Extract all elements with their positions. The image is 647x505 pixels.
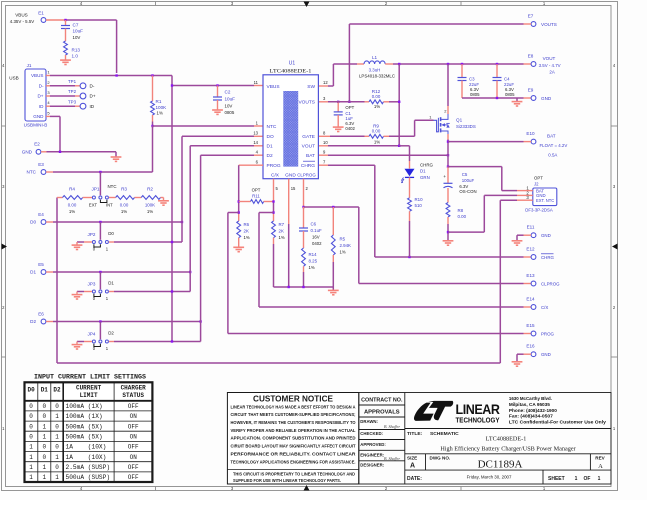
- wire PROG wrap to E15: [228, 212, 239, 214]
- svg-text:Si2333DS: Si2333DS: [456, 124, 476, 129]
- svg-text:1: 1: [29, 474, 33, 481]
- svg-text:Milpitas, CA 95035: Milpitas, CA 95035: [509, 402, 550, 407]
- svg-text:DO: DO: [267, 134, 274, 140]
- terminal E5 D1: [41, 270, 46, 275]
- node C/X-R11: [272, 200, 274, 202]
- svg-text:1%: 1%: [69, 209, 75, 214]
- svg-text:1%: 1%: [309, 265, 315, 270]
- svg-text:16V: 16V: [312, 235, 320, 240]
- svg-text:CLPROG: CLPROG: [297, 173, 316, 178]
- wire JP2 position-1 row: [109, 241, 114, 243]
- wire bottom gnd stem: [332, 287, 334, 290]
- svg-text:1A (10X): 1A (10X): [66, 454, 107, 461]
- svg-text:2K: 2K: [279, 229, 284, 234]
- svg-text:100mA (1X): 100mA (1X): [66, 403, 103, 410]
- svg-text:1630 McCarthy Blvd.: 1630 McCarthy Blvd.: [509, 396, 552, 401]
- svg-text:E16: E16: [526, 344, 535, 349]
- node E10 row: [447, 140, 449, 142]
- svg-text:INPUT CURRENT LIMIT SETTINGS: INPUT CURRENT LIMIT SETTINGS: [34, 374, 146, 381]
- ground at E11: [512, 241, 523, 245]
- wire E9 gnd stem: [516, 98, 518, 101]
- svg-text:1%: 1%: [374, 104, 380, 109]
- svg-text:U1: U1: [289, 61, 296, 67]
- svg-text:500mA (5X): 500mA (5X): [66, 433, 103, 440]
- svg-text:SIZE: SIZE: [407, 455, 417, 460]
- wire CHRG pin row: [319, 164, 328, 166]
- connector J1 USBMINI-B: [25, 69, 46, 121]
- svg-text:BAT: BAT: [547, 134, 556, 139]
- wire D0 row: [46, 221, 53, 223]
- svg-text:E7: E7: [528, 14, 534, 19]
- svg-text:PERFORMANCE OR RELIABILITY. C: PERFORMANCE OR RELIABILITY. CONTACT LINE…: [231, 451, 357, 456]
- svg-text:R3: R3: [121, 187, 127, 192]
- svg-text:2.94K: 2.94K: [340, 243, 352, 248]
- wire NTC down to E3 row: [152, 126, 154, 172]
- svg-text:GND: GND: [285, 173, 296, 179]
- svg-text:1%: 1%: [244, 235, 250, 240]
- svg-text:1: 1: [598, 476, 601, 482]
- resistor R14: [302, 248, 306, 266]
- svg-text:VOUT: VOUT: [543, 56, 556, 61]
- wire Q1 source to VOUT rail: [447, 64, 449, 106]
- svg-text:D2: D2: [108, 331, 114, 336]
- svg-text:GND: GND: [541, 352, 551, 357]
- svg-text:HOWEVER, IT REMAINS THE CUSTOM: HOWEVER, IT REMAINS THE CUSTOMER'S RESPO…: [231, 420, 357, 425]
- node J2 GND link: [447, 231, 449, 233]
- svg-text:DWG NO.: DWG NO.: [430, 455, 451, 460]
- svg-text:OS-CON: OS-CON: [459, 189, 476, 194]
- svg-text:+: +: [443, 175, 446, 180]
- wire JP4 center up: [99, 322, 101, 340]
- svg-text:TP1: TP1: [68, 79, 77, 84]
- node C/X wrap: [272, 211, 274, 213]
- wire D1 row: [46, 271, 53, 273]
- wire VOUTS row: [319, 101, 328, 103]
- resistor R1: [152, 76, 154, 102]
- test point TP1: [50, 85, 75, 87]
- svg-text:1%: 1%: [121, 209, 127, 214]
- svg-text:10: 10: [323, 140, 328, 145]
- node R10 bottom: [408, 256, 410, 258]
- svg-text:ENGINEER:: ENGINEER:: [360, 452, 384, 457]
- svg-text:D+: D+: [90, 94, 96, 99]
- svg-text:R5: R5: [340, 237, 346, 242]
- svg-text:SW: SW: [307, 84, 315, 90]
- svg-text:GND: GND: [541, 233, 551, 238]
- svg-text:0805: 0805: [505, 92, 515, 97]
- resistor R5: [332, 207, 334, 235]
- terminal E3 NTC: [41, 170, 46, 175]
- wire R12 riser / VOUT sense vertical: [398, 64, 400, 146]
- svg-text:0: 0: [29, 413, 33, 420]
- svg-text:LPS4018-332MLC: LPS4018-332MLC: [359, 73, 395, 78]
- wire GATE row: [319, 135, 330, 137]
- svg-text:0.00: 0.00: [458, 214, 467, 219]
- svg-text:0: 0: [29, 433, 33, 440]
- svg-text:L1: L1: [372, 55, 378, 60]
- svg-text:8.25: 8.25: [309, 259, 318, 264]
- ground below C1: [333, 127, 344, 131]
- svg-text:0: 0: [42, 444, 46, 451]
- wire R5 to gnd row: [332, 262, 334, 287]
- node CLPROG: [302, 206, 304, 208]
- svg-text:1%: 1%: [374, 140, 380, 145]
- svg-text:ON: ON: [130, 454, 138, 461]
- capacitor C2: [217, 86, 219, 98]
- title block: [359, 393, 611, 485]
- svg-text:LTC4088EDE-1: LTC4088EDE-1: [270, 69, 312, 75]
- node VBUS-C7: [64, 19, 66, 21]
- terminal E13 CLPROG: [524, 283, 532, 285]
- svg-text:CIRUIT BOARD LAYOUT MAY SIGNIF: CIRUIT BOARD LAYOUT MAY SIGNIFICANTLY AF…: [231, 444, 356, 449]
- jumper JP4: [92, 340, 95, 343]
- node R1 top: [151, 74, 153, 76]
- svg-text:CHRG: CHRG: [541, 255, 555, 260]
- svg-text:D0: D0: [30, 220, 36, 225]
- svg-text:0: 0: [55, 444, 59, 451]
- svg-text:NTC: NTC: [107, 184, 116, 189]
- svg-text:OFF: OFF: [128, 444, 139, 451]
- svg-text:VOUTS: VOUTS: [541, 22, 557, 27]
- node PROG wrap: [238, 211, 240, 213]
- op-amp U1 LTC4088EDE-1: [263, 75, 318, 179]
- resistor R7: [273, 214, 275, 221]
- node R5 top: [332, 206, 334, 208]
- wire VOUT pin row: [319, 145, 328, 147]
- svg-text:CIRCUIT THAT MEETS CUSTOMER-SU: CIRCUIT THAT MEETS CUSTOMER-SUPPLIED SPE…: [231, 412, 357, 417]
- svg-text:D1: D1: [108, 281, 114, 286]
- svg-text:E6: E6: [38, 312, 44, 317]
- terminal E8 VOUT: [531, 62, 536, 67]
- wire Q1 drain down: [447, 134, 449, 140]
- svg-text:D1: D1: [420, 169, 426, 174]
- svg-text:1: 1: [42, 423, 46, 430]
- svg-text:1: 1: [42, 433, 46, 440]
- node rail JP3: [171, 290, 173, 292]
- svg-text:EXT: EXT: [89, 203, 98, 208]
- wire JP3 ground lead: [84, 291, 92, 293]
- svg-text:CURRENT: CURRENT: [76, 385, 102, 392]
- svg-text:0.00: 0.00: [372, 128, 381, 133]
- svg-text:100K: 100K: [156, 105, 168, 110]
- svg-text:OFF: OFF: [128, 464, 139, 471]
- svg-text:14: 14: [253, 140, 258, 145]
- resistor R13: [64, 41, 68, 55]
- svg-text:OPT: OPT: [345, 105, 354, 110]
- svg-text:VBUS: VBUS: [15, 13, 28, 18]
- resistor R9: [365, 135, 370, 137]
- svg-text:0: 0: [42, 413, 46, 420]
- svg-text:REV: REV: [595, 455, 605, 460]
- node VOUTS-R12: [398, 101, 400, 103]
- svg-text:3.3uH: 3.3uH: [369, 68, 381, 73]
- node D2 riser: [199, 320, 201, 322]
- svg-text:10uF: 10uF: [225, 97, 236, 102]
- wire JP2 ground lead: [84, 241, 92, 243]
- svg-text:E14: E14: [526, 297, 535, 302]
- wire U1 GND pin to gnd row: [288, 179, 290, 224]
- svg-text:15: 15: [291, 186, 296, 191]
- node JP4 center riser: [99, 320, 101, 322]
- resistor R8: [446, 203, 450, 218]
- node C4: [496, 63, 498, 65]
- svg-text:0.00: 0.00: [372, 94, 381, 99]
- svg-text:ON: ON: [130, 433, 138, 440]
- svg-text:R1: R1: [156, 99, 162, 104]
- node VBUS riser: [115, 74, 117, 76]
- svg-text:C2: C2: [225, 90, 231, 95]
- svg-text:PROG: PROG: [267, 163, 281, 169]
- test point TP3: [50, 105, 75, 107]
- wire R8 to ground: [447, 224, 449, 240]
- svg-text:1A (10X): 1A (10X): [66, 444, 107, 451]
- svg-text:1: 1: [55, 454, 59, 461]
- svg-text:SCHEMATIC: SCHEMATIC: [430, 431, 459, 437]
- wire VBUS top rail: [46, 19, 66, 21]
- node JP1 riser: [99, 171, 101, 173]
- wire J1 VBUS row: [50, 75, 172, 77]
- svg-text:DESIGNER:: DESIGNER:: [360, 463, 384, 468]
- svg-text:DATE:: DATE:: [407, 476, 422, 482]
- svg-text:0402: 0402: [345, 126, 355, 131]
- wire JP2 center up: [99, 222, 101, 240]
- svg-text:0.00: 0.00: [68, 203, 77, 208]
- svg-text:CHRG: CHRG: [420, 163, 434, 168]
- terminal E14 C/X: [524, 306, 532, 308]
- capacitor C6: [303, 207, 305, 228]
- svg-text:12: 12: [323, 80, 328, 85]
- svg-text:0805: 0805: [470, 92, 480, 97]
- svg-text:GRN: GRN: [420, 175, 430, 180]
- wire E7 VOUTS sense: [524, 23, 532, 25]
- svg-text:USB: USB: [9, 76, 18, 81]
- node R14 bottom: [302, 286, 304, 288]
- svg-text:C5: C5: [462, 172, 468, 177]
- svg-text:DRAWN:: DRAWN:: [360, 419, 378, 424]
- jumper JP3: [92, 290, 95, 293]
- terminal E6 D2: [41, 319, 46, 324]
- svg-text:0: 0: [55, 403, 59, 410]
- svg-text:1: 1: [29, 464, 33, 471]
- svg-text:NTC: NTC: [27, 170, 37, 175]
- svg-text:C3: C3: [469, 77, 475, 82]
- svg-text:E8: E8: [528, 54, 534, 59]
- svg-text:DF3-3P-2DSA: DF3-3P-2DSA: [525, 208, 553, 213]
- svg-text:EXT. NTC: EXT. NTC: [536, 198, 554, 203]
- svg-text:SUPPLIED FOR USE WITH LINEAR T: SUPPLIED FOR USE WITH LINEAR TECHNOLOGY …: [233, 478, 341, 483]
- wire R10 to CHRG row: [409, 221, 411, 257]
- svg-text:LIMIT: LIMIT: [80, 392, 98, 399]
- svg-text:R6: R6: [244, 222, 250, 227]
- ground below R6: [233, 247, 244, 251]
- svg-text:E12: E12: [526, 247, 535, 252]
- svg-text:1: 1: [29, 454, 33, 461]
- wire output gnd row: [462, 97, 524, 99]
- node rail top: [171, 84, 173, 86]
- svg-text:1: 1: [575, 476, 578, 482]
- terminal E7 VOUTS: [531, 22, 536, 27]
- wire VOUT rail: [393, 63, 524, 65]
- svg-text:0.00: 0.00: [120, 203, 129, 208]
- svg-text:E5: E5: [38, 262, 44, 267]
- svg-text:NTC: NTC: [267, 124, 277, 130]
- svg-text:VBUS: VBUS: [31, 73, 44, 78]
- node JP2 center riser: [99, 221, 101, 223]
- ground at bottom row: [328, 290, 339, 294]
- wire E2 ground row: [41, 151, 46, 153]
- node C1: [337, 101, 339, 103]
- svg-text:TITLE:: TITLE:: [407, 431, 423, 437]
- node gnd pin: [288, 286, 290, 288]
- svg-text:TECHNOLOGY APPLICATIONS ENGINE: TECHNOLOGY APPLICATIONS ENGINEERING FOR …: [231, 459, 356, 464]
- resistor R6: [238, 214, 240, 221]
- svg-text:PROG: PROG: [541, 332, 555, 337]
- svg-text:E13: E13: [526, 273, 535, 278]
- svg-text:GATE: GATE: [302, 134, 315, 140]
- svg-text:1.0: 1.0: [72, 54, 79, 59]
- svg-text:1: 1: [55, 433, 59, 440]
- Linear Technology logo: [414, 403, 434, 421]
- svg-text:0: 0: [29, 423, 33, 430]
- svg-text:LINEAR: LINEAR: [456, 401, 500, 417]
- terminal E2 GND: [36, 149, 41, 154]
- wire JP3 center up: [99, 272, 101, 289]
- svg-text:0: 0: [29, 403, 33, 410]
- node VOUT pin: [398, 145, 400, 147]
- svg-text:0.5A: 0.5A: [548, 153, 557, 158]
- svg-text:500uA (SUSP): 500uA (SUSP): [66, 474, 111, 481]
- svg-text:100uF: 100uF: [462, 178, 475, 183]
- svg-text:JP4: JP4: [88, 332, 96, 337]
- svg-text:J1: J1: [27, 63, 32, 68]
- wire JP4 position-1 row: [109, 341, 114, 343]
- svg-text:D1: D1: [267, 144, 273, 150]
- node D0 riser: [181, 221, 183, 223]
- svg-text:2A: 2A: [549, 70, 554, 75]
- jumper JP2: [92, 241, 95, 244]
- svg-text:R14: R14: [309, 252, 318, 257]
- svg-text:C7: C7: [73, 23, 79, 28]
- ground at JP2: [72, 245, 83, 249]
- terminal E1 VBUS: [41, 18, 46, 23]
- wire E10 row: [448, 141, 524, 143]
- resistor R4: [57, 197, 63, 199]
- svg-text:Q1: Q1: [456, 118, 463, 123]
- node J1-GND joins: [59, 151, 61, 153]
- svg-text:APPROVED:: APPROVED:: [360, 442, 386, 447]
- customer notice block: [227, 393, 358, 485]
- resistor R12: [328, 101, 365, 103]
- svg-text:C/X: C/X: [271, 173, 280, 179]
- resistor R10: [409, 177, 411, 197]
- svg-text:CHECKED:: CHECKED:: [360, 431, 383, 436]
- jumper JP1: [92, 196, 95, 199]
- svg-text:OF: OF: [584, 476, 591, 482]
- svg-text:10V: 10V: [225, 103, 233, 108]
- svg-text:D2: D2: [30, 319, 36, 324]
- svg-text:ID: ID: [39, 104, 44, 109]
- svg-text:A: A: [598, 463, 603, 470]
- svg-text:APPLICATION. COMPONENT SUBSTI: APPLICATION. COMPONENT SUBSTITUTION AND …: [231, 436, 356, 441]
- wire SW to L1: [319, 85, 328, 87]
- node C3: [461, 63, 463, 65]
- svg-text:GND: GND: [22, 150, 33, 155]
- svg-text:R2: R2: [147, 187, 153, 192]
- svg-text:B. Shaffer: B. Shaffer: [384, 424, 400, 429]
- wire E3 NTC row: [46, 171, 53, 173]
- wire JP4 ground lead: [84, 341, 92, 343]
- wire NTC row to U1 pin 1: [153, 125, 255, 127]
- svg-text:R10: R10: [415, 197, 424, 202]
- svg-text:E4: E4: [38, 212, 44, 217]
- svg-text:0: 0: [42, 403, 46, 410]
- ground at JP3: [72, 295, 83, 299]
- svg-text:500mA (5X): 500mA (5X): [66, 423, 103, 430]
- svg-text:TP3: TP3: [68, 99, 77, 104]
- svg-text:C4: C4: [504, 77, 510, 82]
- svg-text:OPT: OPT: [252, 188, 261, 193]
- svg-text:1: 1: [42, 464, 46, 471]
- node C5 top: [447, 165, 449, 167]
- svg-text:D-: D-: [39, 84, 44, 89]
- svg-text:R11: R11: [252, 194, 260, 199]
- svg-text:CHRG: CHRG: [301, 163, 315, 169]
- resistor R3: [109, 197, 116, 199]
- svg-text:10uF: 10uF: [73, 29, 84, 34]
- terminal E16 GND: [531, 352, 536, 357]
- svg-text:OFF: OFF: [128, 403, 139, 410]
- node C4 gnd: [496, 97, 498, 99]
- svg-text:13: 13: [253, 131, 258, 136]
- svg-text:E15: E15: [526, 323, 535, 328]
- terminal E11 GND: [531, 233, 536, 238]
- wire bottom gnd row: [274, 286, 334, 288]
- svg-text:TECHNOLOGY: TECHNOLOGY: [456, 417, 500, 424]
- svg-text:GND: GND: [541, 96, 552, 101]
- svg-text:JP1: JP1: [92, 187, 100, 192]
- svg-text:CONTRACT NO.: CONTRACT NO.: [361, 398, 403, 404]
- svg-text:1%: 1%: [157, 111, 163, 116]
- svg-text:VERIFY PROPER AND RELIABLE OPE: VERIFY PROPER AND RELIABLE OPERATION IN …: [231, 428, 356, 433]
- svg-text:1: 1: [29, 444, 33, 451]
- svg-text:OFF: OFF: [128, 423, 139, 430]
- svg-text:1%: 1%: [340, 250, 346, 255]
- wire D2 row: [46, 321, 53, 323]
- terminal E15 PROG: [524, 333, 532, 335]
- svg-text:E3: E3: [38, 162, 44, 167]
- wire J1 GND to E2 row: [50, 115, 60, 117]
- wire J2 GND link: [484, 194, 517, 196]
- wire BAT pin row: [319, 154, 328, 156]
- svg-text:1%: 1%: [279, 235, 285, 240]
- svg-text:JP2: JP2: [88, 232, 96, 237]
- inductor L1: [357, 63, 364, 65]
- svg-text:Phone: (408)432-1900: Phone: (408)432-1900: [509, 408, 557, 413]
- capacitor C3: [461, 64, 463, 78]
- wire GATE to Q1 gate: [389, 135, 415, 137]
- wire PROG net: [239, 164, 263, 166]
- wire J2 BAT to C5 top: [448, 166, 502, 168]
- svg-text:100mA (1X): 100mA (1X): [66, 413, 103, 420]
- svg-text:2.5mA (SUSP): 2.5mA (SUSP): [66, 464, 111, 471]
- svg-text:INT: INT: [106, 203, 113, 208]
- svg-text:0.1uF: 0.1uF: [311, 228, 323, 233]
- svg-text:JP3: JP3: [88, 282, 96, 287]
- wire D2 riser to U1: [200, 155, 202, 341]
- ground at E16: [512, 362, 523, 366]
- ground below R8: [443, 241, 454, 245]
- svg-text:CLPROG: CLPROG: [541, 282, 560, 287]
